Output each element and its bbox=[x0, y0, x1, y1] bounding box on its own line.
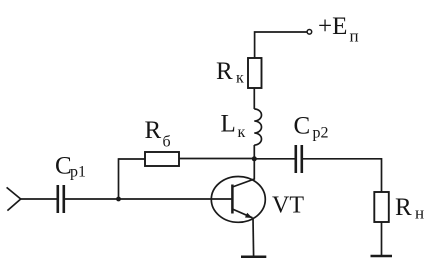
svg-text:к: к bbox=[236, 70, 244, 87]
wire base junction up to Rb bbox=[118, 158, 120, 199]
label Cp2 bbox=[294, 113, 329, 142]
wire Lk to Rk bbox=[253, 88, 255, 109]
svg-text:к: к bbox=[238, 124, 246, 141]
wire input to Cp1 bbox=[21, 198, 57, 200]
supply terminal circle bbox=[307, 30, 312, 35]
svg-text:R: R bbox=[145, 117, 162, 144]
inductor Lk bbox=[254, 109, 261, 145]
resistor Rk bbox=[248, 58, 262, 88]
svg-text:+E: +E bbox=[318, 13, 347, 40]
svg-text:C: C bbox=[294, 113, 311, 140]
node base junction bbox=[116, 197, 121, 202]
label Rk bbox=[216, 58, 244, 87]
transistor base bar bbox=[231, 185, 234, 214]
label +En bbox=[318, 13, 359, 46]
svg-text:р1: р1 bbox=[70, 164, 86, 181]
svg-text:VT: VT bbox=[272, 193, 304, 219]
wire Cp2 to Rn bbox=[303, 159, 382, 192]
transistor VT circle bbox=[211, 177, 265, 223]
ground right bbox=[371, 255, 393, 258]
wire collector node to Cp2 bbox=[254, 158, 295, 160]
wire Rk top to supply corner bbox=[255, 32, 307, 58]
wire Cp1 to transistor base bbox=[65, 198, 232, 200]
label Rn bbox=[395, 194, 424, 223]
svg-text:R: R bbox=[216, 58, 233, 85]
resistor Rb bbox=[145, 152, 179, 166]
emitter arrowhead bbox=[245, 213, 253, 218]
node collector junction bbox=[252, 156, 257, 161]
svg-text:р2: р2 bbox=[313, 125, 329, 142]
transistor emitter lead bbox=[232, 209, 252, 218]
capacitor Cp2 bbox=[296, 145, 302, 173]
wire Rn to ground bbox=[381, 222, 383, 256]
wire emitter to ground bbox=[252, 218, 255, 257]
capacitor Cp1 bbox=[58, 185, 64, 213]
resistor Rn bbox=[374, 192, 389, 222]
input terminal chevron bbox=[7, 187, 21, 210]
svg-text:п: п bbox=[350, 27, 359, 46]
ground emitter bbox=[241, 256, 266, 259]
wire Rb right to collector node bbox=[179, 158, 254, 160]
label VT bbox=[272, 193, 304, 219]
svg-text:L: L bbox=[221, 111, 236, 138]
svg-text:R: R bbox=[395, 194, 412, 221]
label Cp1 bbox=[55, 153, 86, 181]
wire collector node up to Lk bbox=[253, 145, 255, 159]
svg-text:б: б bbox=[163, 134, 171, 151]
transistor collector lead bbox=[232, 159, 254, 187]
label Rb bbox=[145, 117, 171, 151]
wire to Rb left bbox=[119, 158, 146, 160]
svg-text:н: н bbox=[415, 204, 424, 223]
label Lk bbox=[221, 111, 246, 142]
